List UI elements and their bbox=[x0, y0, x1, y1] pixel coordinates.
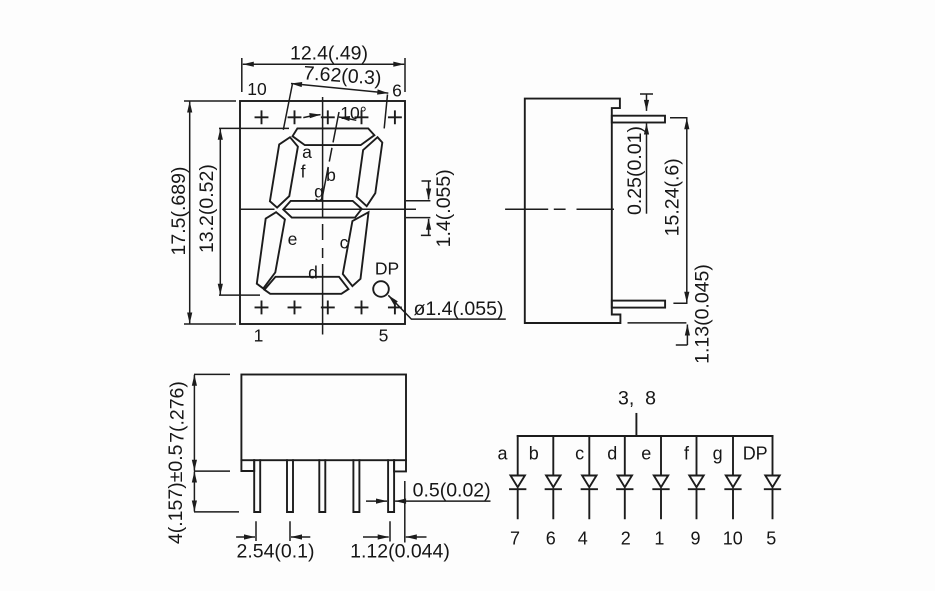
svg-text:7: 7 bbox=[510, 528, 520, 548]
svg-text:10°: 10° bbox=[340, 103, 366, 123]
svg-text:6: 6 bbox=[546, 528, 556, 548]
svg-text:2: 2 bbox=[621, 528, 631, 548]
svg-text:e: e bbox=[641, 444, 651, 464]
dim 7 body height bbox=[193, 375, 195, 471]
svg-text:15.24(.6): 15.24(.6) bbox=[662, 158, 684, 236]
bottom view body bbox=[241, 375, 406, 461]
svg-text:12.4(.49): 12.4(.49) bbox=[290, 43, 368, 65]
svg-text:c: c bbox=[340, 233, 349, 253]
leader for DP diameter bbox=[388, 295, 506, 319]
diode f bbox=[689, 436, 704, 518]
bottom view pin 2 bbox=[287, 460, 293, 512]
horizontal centerline bbox=[240, 208, 614, 210]
svg-text:10: 10 bbox=[723, 528, 743, 548]
dim 13.2 bbox=[219, 129, 221, 295]
bottom view pin 4 bbox=[353, 460, 359, 512]
svg-text:DP: DP bbox=[743, 444, 768, 464]
dim 0.25 lead thickness bbox=[640, 93, 653, 95]
DP circle bbox=[373, 281, 389, 297]
svg-text:4: 4 bbox=[578, 528, 588, 548]
svg-text:0.5(0.02): 0.5(0.02) bbox=[413, 479, 491, 501]
diode d bbox=[617, 436, 632, 518]
vertical centerline bbox=[322, 97, 324, 335]
diode e bbox=[653, 436, 668, 518]
pin marker + (top row pins 10..6) bbox=[256, 111, 401, 123]
svg-text:2.54(0.1): 2.54(0.1) bbox=[236, 541, 314, 563]
dim 17.5 bbox=[189, 102, 191, 324]
svg-text:0.25(0.01): 0.25(0.01) bbox=[624, 126, 646, 215]
svg-text:a: a bbox=[497, 444, 508, 464]
svg-text:10: 10 bbox=[247, 79, 267, 99]
svg-text:1.13(0.045): 1.13(0.045) bbox=[692, 264, 714, 364]
bottom view pin 3 bbox=[319, 460, 325, 512]
segment e bbox=[257, 212, 285, 288]
segment b bbox=[357, 137, 383, 206]
svg-text:c: c bbox=[575, 444, 584, 464]
diode b bbox=[546, 436, 561, 518]
diode c bbox=[582, 436, 597, 518]
svg-text:7(.276): 7(.276) bbox=[167, 381, 189, 443]
side view body bbox=[525, 99, 621, 323]
dim 0.5 pin width bbox=[366, 500, 387, 502]
segment f bbox=[270, 137, 298, 207]
svg-text:3, 8: 3, 8 bbox=[618, 388, 656, 410]
wire stub from 3,8 bbox=[635, 414, 637, 436]
svg-text:1.12(0.044): 1.12(0.044) bbox=[350, 541, 450, 563]
dim 7.62 bbox=[291, 84, 388, 94]
angle 10 deg annotation bbox=[303, 115, 320, 118]
segment d bbox=[264, 277, 348, 294]
side view pin 10 lead bbox=[612, 116, 665, 123]
svg-text:1.4(.055): 1.4(.055) bbox=[433, 169, 455, 247]
common anode bus wire bbox=[518, 435, 773, 437]
svg-text:5: 5 bbox=[379, 326, 389, 346]
svg-text:a: a bbox=[302, 142, 312, 162]
svg-text:g: g bbox=[713, 444, 723, 464]
slanted 10 deg axis (dashed) bbox=[322, 112, 339, 201]
svg-text:DP: DP bbox=[375, 259, 399, 279]
svg-text:1: 1 bbox=[254, 326, 264, 346]
svg-text:9: 9 bbox=[690, 528, 700, 548]
bottom view pin 5 bbox=[388, 460, 394, 512]
bottom view left shoulder bbox=[241, 460, 254, 471]
bottom view right shoulder bbox=[394, 460, 406, 471]
segment c bbox=[343, 212, 369, 286]
svg-text:e: e bbox=[288, 229, 298, 249]
front view package outline bbox=[240, 101, 405, 324]
pin marker + (bottom row pins 1..5) bbox=[256, 301, 401, 313]
segment a bbox=[293, 128, 375, 145]
dim 1.12 bbox=[390, 481, 405, 543]
svg-text:17.5(.689): 17.5(.689) bbox=[168, 167, 190, 256]
svg-text:d: d bbox=[607, 444, 617, 464]
diode a: wire, symbol bbox=[510, 436, 525, 518]
dim 4 pin length bbox=[193, 472, 195, 512]
svg-text:f: f bbox=[684, 444, 690, 464]
svg-text:4(.157)±0.5: 4(.157)±0.5 bbox=[165, 444, 187, 544]
svg-text:ø1.4(.055): ø1.4(.055) bbox=[414, 298, 504, 320]
svg-text:d: d bbox=[308, 263, 318, 283]
diode g bbox=[725, 436, 740, 518]
dim 1.13 bbox=[628, 323, 688, 345]
dim 1.4 segment thickness bbox=[406, 201, 430, 218]
bottom view pin 1 bbox=[254, 460, 260, 512]
svg-text:b: b bbox=[529, 444, 539, 464]
svg-text:1: 1 bbox=[654, 528, 664, 548]
dim 15.24 bbox=[670, 118, 688, 304]
svg-text:f: f bbox=[301, 162, 306, 182]
segment g bbox=[283, 201, 362, 218]
svg-text:13.2(0.52): 13.2(0.52) bbox=[196, 164, 218, 253]
diode DP bbox=[765, 436, 780, 518]
dim 12.4 bbox=[243, 63, 404, 65]
svg-text:6: 6 bbox=[392, 81, 402, 101]
dim 2.54 pin pitch bbox=[256, 521, 290, 541]
svg-text:5: 5 bbox=[766, 528, 776, 548]
side view pin 1 lead bbox=[612, 301, 665, 308]
